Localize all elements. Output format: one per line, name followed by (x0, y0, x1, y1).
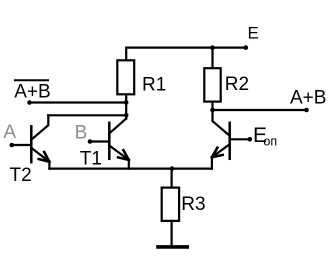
svg-text:B: B (75, 123, 88, 144)
svg-text:A+B: A+B (290, 87, 326, 108)
svg-text:R1: R1 (142, 75, 166, 96)
svg-text:A+B: A+B (14, 81, 50, 102)
svg-text:A: A (3, 122, 16, 143)
svg-text:T2: T2 (10, 165, 32, 186)
svg-text:E: E (248, 24, 259, 43)
svg-text:оп: оп (263, 134, 277, 148)
svg-text:T1: T1 (80, 149, 102, 170)
svg-text:R2: R2 (225, 74, 249, 95)
svg-text:R3: R3 (181, 194, 205, 215)
